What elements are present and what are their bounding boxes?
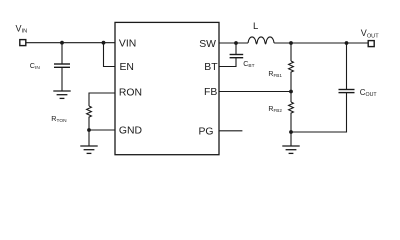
node GND junction xyxy=(87,128,91,132)
wire inductor to VOUT xyxy=(274,42,368,44)
resistor RFB1 xyxy=(289,61,294,92)
svg-text:GND: GND xyxy=(119,125,142,136)
svg-text:RFB1: RFB1 xyxy=(268,71,282,78)
svg-text:L: L xyxy=(253,21,258,32)
wire RFB1 top lead xyxy=(290,43,292,61)
wire RON pin xyxy=(89,93,115,106)
wire RFB2 top lead xyxy=(290,92,292,103)
wire EN stub xyxy=(104,43,116,67)
svg-text:SW: SW xyxy=(199,39,216,50)
terminal VOUT (output square) xyxy=(368,41,374,47)
node output ground junction xyxy=(289,130,293,134)
wire SW to inductor xyxy=(219,42,248,44)
wire ground stub xyxy=(290,132,292,146)
svg-text:FB: FB xyxy=(204,87,217,98)
node RFB1 top junction xyxy=(289,41,293,45)
terminal VIN (input square) xyxy=(20,40,26,46)
ground (CIN) xyxy=(53,91,70,98)
node EN junction xyxy=(102,41,106,45)
svg-text:BT: BT xyxy=(204,62,218,73)
wire GND pin xyxy=(89,129,115,131)
node VOUT junction xyxy=(345,41,349,45)
node CIN junction xyxy=(60,41,64,45)
wire VIN rail to IC xyxy=(26,42,115,44)
svg-text:VIN: VIN xyxy=(119,38,136,49)
ground (output divider) xyxy=(282,146,299,153)
node SW/CBT junction xyxy=(234,41,238,45)
node FB junction xyxy=(289,90,293,94)
wire ground stub xyxy=(88,130,90,146)
wire PG stub xyxy=(219,130,242,132)
ground (RTON) xyxy=(80,146,97,153)
resistor RFB2 xyxy=(289,102,294,132)
resistor RTON xyxy=(87,106,92,130)
capacitor CBT xyxy=(219,43,243,67)
inductor L xyxy=(248,37,274,44)
wire FB pin xyxy=(219,91,291,93)
svg-text:RON: RON xyxy=(119,88,142,99)
svg-text:RFB2: RFB2 xyxy=(268,106,282,113)
capacitor CIN xyxy=(54,43,70,91)
op-amp U1 (IC body) xyxy=(115,22,219,154)
svg-text:EN: EN xyxy=(120,62,134,73)
wire bottom rail to COUT xyxy=(291,93,347,132)
svg-text:PG: PG xyxy=(199,126,214,137)
capacitor COUT xyxy=(339,43,355,93)
